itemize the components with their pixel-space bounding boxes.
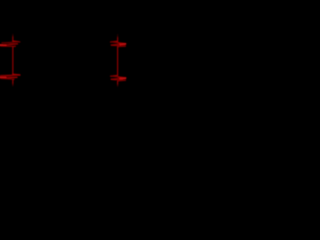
wire: right top lead bbox=[117, 35, 119, 37]
wire: left top lead bbox=[12, 34, 14, 36]
resistor R2 (lower left zigzag) bbox=[0, 74, 20, 80]
resistor R4 (lower right zigzag) bbox=[111, 76, 126, 81]
wire: left middle segment bbox=[12, 47, 14, 75]
background bbox=[0, 0, 128, 128]
resistor R3 (upper right zigzag) bbox=[111, 41, 126, 46]
node A (left column) bbox=[0, 34, 20, 86]
wire: left bottom lead bbox=[12, 80, 14, 84]
resistor R1 (upper left zigzag) bbox=[0, 41, 20, 47]
wire: right middle segment bbox=[117, 47, 119, 76]
node B (right column) bbox=[111, 35, 126, 87]
wire: right bottom lead bbox=[117, 81, 119, 84]
